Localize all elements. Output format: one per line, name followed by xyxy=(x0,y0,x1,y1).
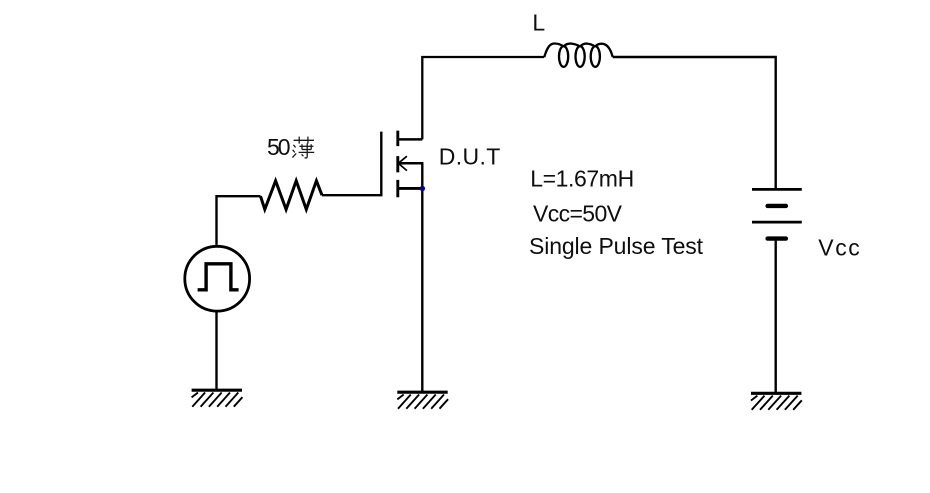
svg-text:Vcc: Vcc xyxy=(818,235,860,261)
svg-text:Single Pulse Test: Single Pulse Test xyxy=(529,233,704,259)
svg-text:Vcc=50V: Vcc=50V xyxy=(533,201,623,227)
svg-text:L=1.67mH: L=1.67mH xyxy=(530,166,634,192)
svg-text:L: L xyxy=(532,10,545,36)
svg-text:D.U.T: D.U.T xyxy=(439,143,501,169)
svg-text:50: 50 xyxy=(267,134,291,160)
